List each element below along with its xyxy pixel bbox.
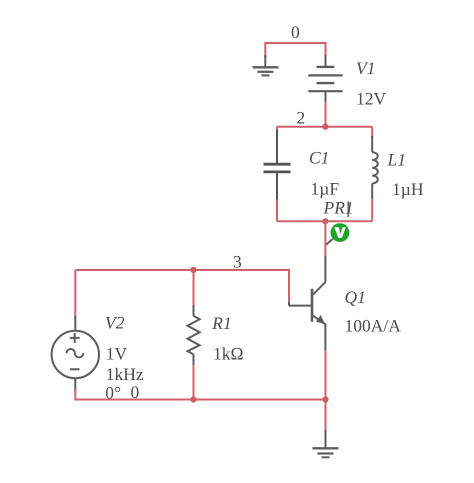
label V1 [356,58,375,78]
svg-text:V2: V2 [105,313,125,333]
svg-text:1µH: 1µH [392,179,424,199]
wire V1 to node 2 [325,102,327,127]
ground (top left) [253,55,279,75]
label node 0 [291,22,300,42]
source V2 [52,316,99,391]
label 1kOhm [213,344,244,364]
junction R1 bottom [190,396,196,402]
wire R1 bottom lead [193,365,195,400]
wire V2 top [74,270,76,318]
label node 3 [233,251,242,271]
label PR1 [323,197,354,217]
resistor R1 [188,304,200,367]
junction node 3 / R1 top [190,267,196,273]
wire node 2 to collector [324,221,326,257]
wire node 3 (V2/R1 top to base) [75,270,289,302]
svg-text:L1: L1 [387,150,406,170]
battery V1 [308,55,342,103]
label 1uH [392,179,424,199]
svg-text:C1: C1 [309,148,329,168]
wire tank top [277,126,372,128]
svg-text:2: 2 [297,107,306,127]
wire node 0 (top: ground to V1 top) [265,43,325,58]
svg-text:12V: 12V [356,89,387,109]
ground (bottom) [313,430,339,457]
label C1 [309,148,329,168]
wire emitter to ground [325,350,327,432]
label 1kHz [106,364,144,384]
label 100A/A [345,316,402,336]
label 1uF [311,179,340,199]
probe caret [347,202,349,218]
wire tank right (lower stub) [371,198,373,222]
svg-text:R1: R1 [211,313,231,333]
junction tank bottom [322,218,328,224]
junction node 2 [322,124,328,130]
svg-text:1kΩ: 1kΩ [213,344,244,364]
label R1 [211,313,231,333]
svg-text:0: 0 [291,22,300,42]
transistor Q1 [289,256,326,352]
wire tank right (upper stub) [371,127,373,138]
wire tank bottom [277,220,372,222]
label V2 [105,313,125,333]
svg-text:1V: 1V [106,344,128,364]
svg-text:1kHz: 1kHz [106,364,144,384]
svg-text:100A/A: 100A/A [345,316,402,336]
label 12V [356,89,387,109]
inductor L1 [372,136,378,199]
label node 2 [297,107,306,127]
svg-text:1µF: 1µF [311,179,340,199]
transistor Q1 emitter arrow [316,315,325,324]
svg-text:3: 3 [233,251,242,271]
label 0deg [105,382,121,402]
label Q1 [345,287,366,307]
label net 0 [131,382,140,402]
label 1V [106,344,128,364]
junction emitter/bottom wire [322,396,328,402]
probe PR1 pointer [326,239,332,245]
svg-text:PR1: PR1 [323,197,354,217]
wire tank left (lower stub) [276,199,278,222]
svg-text:V1: V1 [356,58,375,78]
wire R1 top lead [193,270,195,305]
probe PR1 [331,223,350,242]
svg-text:Q1: Q1 [345,287,366,307]
wire V2 bottom [75,389,325,400]
wire tank left (upper stub) [276,127,278,132]
label L1 [387,150,406,170]
capacitor C1 [264,130,291,200]
